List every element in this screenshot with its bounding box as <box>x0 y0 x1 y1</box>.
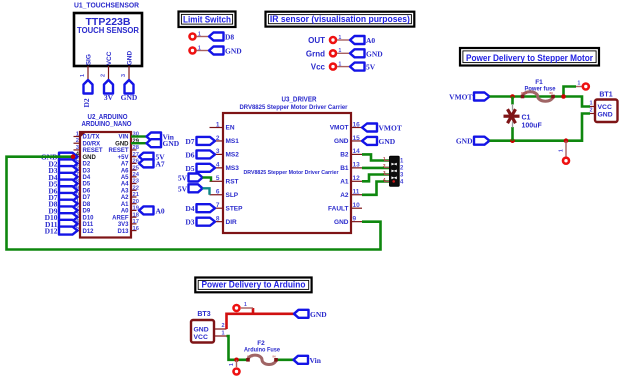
svg-text:15: 15 <box>353 135 361 142</box>
svg-text:MS2: MS2 <box>226 152 240 159</box>
svg-text:DRV8825 Stepper Motor Driver C: DRV8825 Stepper Motor Driver Carrier <box>244 170 339 176</box>
IR sensor pad OUT <box>330 37 336 43</box>
driver U3 body <box>223 113 351 233</box>
svg-text:MS1: MS1 <box>226 138 240 145</box>
svg-text:GND: GND <box>598 112 613 119</box>
svg-text:Grnd: Grnd <box>306 49 325 58</box>
svg-text:D13: D13 <box>117 229 129 235</box>
wire branch to test pad P1 <box>564 87 577 97</box>
svg-text:2: 2 <box>221 323 224 329</box>
battery BT1 reference label <box>599 92 612 99</box>
motor connector J1 pin numbers red <box>383 156 386 182</box>
fuse F1 labels <box>525 79 556 92</box>
net flag GND at arduino left pin 4 <box>41 153 78 162</box>
svg-text:1: 1 <box>244 302 247 308</box>
IR sensor pad Grnd <box>330 50 336 56</box>
svg-text:VCC: VCC <box>598 104 612 111</box>
svg-text:1: 1 <box>229 363 235 366</box>
limit switch pad 1 pin number 1 <box>198 31 201 37</box>
svg-text:2: 2 <box>76 138 79 144</box>
svg-text:VCC: VCC <box>194 334 208 341</box>
Power Delivery to Stepper Motor title box <box>460 48 599 66</box>
Power Delivery to Arduino title box <box>195 278 311 293</box>
net flag D5 at arduino left pin 8 <box>48 180 77 189</box>
svg-text:D7: D7 <box>83 195 91 201</box>
svg-text:C1: C1 <box>522 115 531 122</box>
svg-text:23: 23 <box>133 179 140 185</box>
svg-text:17: 17 <box>133 219 139 225</box>
svg-text:IR sensor (visualisation purpo: IR sensor (visualisation purposes) <box>270 14 410 24</box>
wire touch sensor GND pin stub <box>128 66 130 80</box>
svg-text:A4: A4 <box>121 182 129 188</box>
svg-text:2: 2 <box>101 74 107 77</box>
wire pad P3 branch red <box>252 308 255 314</box>
svg-text:VCC: VCC <box>106 51 113 65</box>
svg-text:GND: GND <box>115 141 129 147</box>
battery BT1 body <box>595 100 618 123</box>
svg-text:5V: 5V <box>178 184 188 193</box>
IR sensor title box <box>266 12 415 27</box>
svg-text:D4: D4 <box>185 204 194 213</box>
battery BT1 pin numbers <box>589 101 592 114</box>
net flag A0 at arduino <box>139 206 165 215</box>
IR sensor pad Vcc pin number 1 <box>339 61 342 67</box>
svg-text:VIN: VIN <box>118 135 128 141</box>
net flag GND at driver pin 15 <box>362 137 396 146</box>
net flag D4 at driver STEP <box>185 204 215 213</box>
svg-text:100uF: 100uF <box>522 123 543 130</box>
svg-text:SIG: SIG <box>86 54 93 65</box>
svg-text:25: 25 <box>133 165 140 171</box>
wire driver B2 to motor connector pin 1 <box>362 154 390 160</box>
net flag GND at touch sensor <box>121 80 138 102</box>
wire arduino VIN to flag <box>131 135 147 137</box>
svg-text:D12: D12 <box>83 229 95 235</box>
svg-text:28: 28 <box>133 145 140 151</box>
svg-text:Power Delivery to Stepper Moto: Power Delivery to Stepper Motor <box>466 53 593 64</box>
capacitor C1 value labels <box>522 115 543 130</box>
net flag 5V at IR sensor <box>350 63 376 72</box>
svg-text:18: 18 <box>133 212 140 218</box>
svg-text:IN: IN <box>550 91 553 95</box>
limit switch pad 2 <box>190 48 196 54</box>
wire limit switch row 1 <box>197 36 210 38</box>
net flag Vin at arduino VIN <box>147 133 175 142</box>
net flag D9 at arduino left pin 12 <box>48 206 77 215</box>
capacitor C1 wires <box>511 97 514 141</box>
svg-text:22: 22 <box>133 185 139 191</box>
IR sensor signal name Grnd <box>306 49 325 58</box>
fuse F1 terminal text OUT IN <box>521 91 553 95</box>
pad P3 <box>234 305 240 311</box>
net flag D6 at driver MS2 <box>185 150 215 159</box>
fuse F2 terminal text OUT IN <box>247 355 276 359</box>
net flag GND at limit switch <box>209 47 242 56</box>
arduino U2 reference labels <box>82 114 132 128</box>
svg-text:13: 13 <box>353 162 361 169</box>
svg-text:MS3: MS3 <box>226 165 240 172</box>
svg-text:1: 1 <box>221 331 224 337</box>
svg-text:1: 1 <box>578 81 581 87</box>
junction VCC wire at pad P4 <box>234 358 239 363</box>
svg-text:D2: D2 <box>83 162 91 168</box>
svg-text:BT1: BT1 <box>599 92 612 99</box>
motor connector J1 body <box>390 156 400 186</box>
junction VMOT rail at pad branch <box>561 94 566 99</box>
net flag A7 at arduino <box>139 159 165 168</box>
svg-text:21: 21 <box>133 192 140 198</box>
svg-text:D9: D9 <box>83 209 91 215</box>
pad P1 <box>583 84 589 90</box>
svg-text:5V: 5V <box>178 174 188 183</box>
svg-text:20: 20 <box>133 199 139 205</box>
svg-text:4: 4 <box>216 162 220 169</box>
pad P2 pin number rotated <box>559 149 565 152</box>
svg-text:2: 2 <box>589 108 592 114</box>
battery BT3 reference label <box>197 311 210 318</box>
net flag D7 at arduino left pin 10 <box>48 193 77 202</box>
wire arduino GND to flag <box>131 142 147 144</box>
svg-text:A7: A7 <box>121 162 129 168</box>
svg-text:1: 1 <box>80 74 86 77</box>
svg-text:GND: GND <box>334 138 349 145</box>
svg-text:14: 14 <box>353 148 361 155</box>
net flag A0 at IR sensor <box>350 36 375 45</box>
net flag D4 at arduino left pin 7 <box>48 173 77 182</box>
driver U3 pin names <box>226 125 349 226</box>
svg-text:Limit Switch: Limit Switch <box>183 14 231 24</box>
svg-text:GND: GND <box>83 155 97 161</box>
svg-text:RESET: RESET <box>108 148 128 154</box>
svg-text:3V3: 3V3 <box>118 222 129 228</box>
svg-text:VMOT: VMOT <box>330 125 349 132</box>
svg-text:A1: A1 <box>340 179 349 186</box>
net flag D5 at driver MS3 <box>185 164 215 173</box>
fuse F2 <box>246 355 278 364</box>
wire pad P3 stub <box>241 307 253 309</box>
wire touch sensor VCC pin stub <box>108 66 110 80</box>
svg-text:11: 11 <box>353 189 360 196</box>
svg-text:STEP: STEP <box>226 205 244 212</box>
svg-text:U3_DRIVER: U3_DRIVER <box>282 97 317 104</box>
svg-text:FAULT: FAULT <box>328 205 348 212</box>
svg-text:A2: A2 <box>121 195 129 201</box>
svg-text:D3: D3 <box>185 218 194 227</box>
net flag D8 at arduino left pin 11 <box>48 200 77 209</box>
svg-text:D4: D4 <box>83 175 91 181</box>
svg-text:12: 12 <box>353 175 361 182</box>
IR sensor pad Vcc <box>330 64 336 70</box>
pad P1 pin number <box>578 81 581 87</box>
net flag D8 at limit switch <box>209 33 234 42</box>
limit switch pad 2 pin number 1 <box>198 45 201 51</box>
svg-text:BT3: BT3 <box>197 311 210 318</box>
fuse F2 labels <box>244 340 280 354</box>
wire pad P1 stub <box>576 86 582 88</box>
net flag GND at arduino right GND <box>147 139 180 148</box>
svg-text:D8: D8 <box>83 202 91 208</box>
svg-text:D5: D5 <box>83 182 91 188</box>
wire 5V flag to SLP pin teal <box>203 188 210 195</box>
arduino U2 body <box>80 132 131 238</box>
svg-text:D11: D11 <box>83 222 94 228</box>
wire driver B1 to motor connector pin 2 <box>362 167 390 170</box>
svg-text:2: 2 <box>216 135 220 142</box>
net flag 5V to driver RST <box>178 174 203 183</box>
net flag GND at IR sensor <box>350 49 383 58</box>
pad P4 <box>234 369 240 375</box>
svg-text:A6: A6 <box>121 168 129 174</box>
arduino U2 pin stubs <box>74 137 137 231</box>
svg-text:TOUCH SENSOR: TOUCH SENSOR <box>77 26 139 35</box>
limit switch pad 1 <box>190 34 196 40</box>
IR sensor pad Grnd pin number 1 <box>339 48 342 54</box>
svg-text:B1: B1 <box>340 165 349 172</box>
svg-text:SLP: SLP <box>226 192 239 199</box>
svg-text:U1_TOUCHSENSOR: U1_TOUCHSENSOR <box>74 1 140 10</box>
pad P4 pin number rotated <box>229 363 235 366</box>
svg-text:D10: D10 <box>83 215 95 221</box>
touch sensor U1 body <box>74 13 142 66</box>
svg-text:EN: EN <box>226 125 235 132</box>
svg-text:Power Delivery to Arduino: Power Delivery to Arduino <box>201 280 305 290</box>
net flag 5V at arduino +5V <box>139 153 165 162</box>
svg-text:D8: D8 <box>225 33 234 42</box>
svg-text:GND: GND <box>366 49 383 58</box>
net flag D2 at arduino left pin 5 <box>48 159 77 168</box>
wire limit switch row 2 <box>197 50 210 52</box>
svg-text:24: 24 <box>133 172 140 178</box>
svg-text:D0/RX: D0/RX <box>83 141 101 147</box>
touch sensor U1 reference label <box>74 1 140 10</box>
svg-text:9: 9 <box>353 215 357 222</box>
svg-text:Vcc: Vcc <box>311 63 326 72</box>
svg-text:B2: B2 <box>340 152 349 159</box>
pad P2 <box>563 158 569 164</box>
net flag D3 at driver DIR <box>185 218 215 227</box>
svg-text:16: 16 <box>353 121 361 128</box>
svg-text:16: 16 <box>133 226 140 232</box>
battery BT1 pin stubs <box>583 107 596 114</box>
battery BT3 pin stubs <box>214 329 227 336</box>
net flag 5V to driver SLP <box>178 184 203 193</box>
motor connector J1 pin stubs <box>384 161 390 182</box>
net flag D11 at arduino left pin 14 <box>45 220 78 229</box>
svg-text:A0: A0 <box>121 209 129 215</box>
wire VMOT rail to BT1 VCC <box>490 97 591 107</box>
svg-text:D6: D6 <box>185 150 194 159</box>
Limit Switch title box <box>179 12 236 28</box>
svg-text:1: 1 <box>216 121 220 128</box>
svg-text:VMOT: VMOT <box>449 93 472 102</box>
svg-text:AREF: AREF <box>112 215 129 221</box>
driver U3 reference labels <box>240 97 349 112</box>
svg-text:A3: A3 <box>121 188 129 194</box>
svg-text:A1: A1 <box>121 202 129 208</box>
svg-text:GND: GND <box>456 137 473 146</box>
svg-text:DIR: DIR <box>226 219 238 226</box>
IR sensor pad OUT pin number 1 <box>339 35 342 41</box>
svg-text:6: 6 <box>216 189 220 196</box>
svg-text:ARDUINO_NANO: ARDUINO_NANO <box>82 121 132 128</box>
svg-text:DRV8825 Stepper Motor Driver C: DRV8825 Stepper Motor Driver Carrier <box>240 105 349 111</box>
wire fuse F2 to Vin flag green <box>276 358 294 361</box>
net flag GND at power delivery arduino <box>294 310 327 319</box>
svg-text:8: 8 <box>216 215 220 222</box>
arduino U2 pin-1 marker <box>80 132 87 138</box>
wire IR sensor row OUT <box>337 39 350 41</box>
pad P3 pin number <box>244 302 247 308</box>
wire GND rail to BT1 GND <box>490 114 591 141</box>
net flag 3V at touch sensor <box>104 80 114 102</box>
touch sensor U1 pin names SIG VCC GND <box>86 51 134 66</box>
junction GND rail at pad branch <box>564 138 569 143</box>
svg-text:D5: D5 <box>185 164 194 173</box>
wire IR sensor row Vcc <box>337 66 350 68</box>
junction at arduino GND flag <box>71 154 76 159</box>
wire pad P4 stub <box>236 360 238 367</box>
svg-text:GND: GND <box>127 51 134 66</box>
svg-text:Vin: Vin <box>310 356 322 365</box>
net flag D10 at arduino left pin 13 <box>45 213 78 222</box>
battery BT3 body <box>191 320 214 343</box>
motor connector J1 pin numbers blue <box>400 159 404 186</box>
wire BT3 VCC to fuse F2 green <box>227 336 249 360</box>
svg-text:A7: A7 <box>156 159 165 168</box>
net flag VMOT source <box>449 93 489 102</box>
IR sensor signal name Vcc <box>311 63 326 72</box>
net flag D12 at arduino left pin 15 <box>45 227 78 236</box>
svg-text:VMOT: VMOT <box>379 124 402 133</box>
net flag Vin at power delivery arduino <box>294 356 322 365</box>
svg-text:OUT: OUT <box>308 36 325 45</box>
svg-text:GND: GND <box>163 139 180 148</box>
svg-text:RST: RST <box>226 179 239 186</box>
wire driver A1 to motor connector pin 3 <box>362 175 390 182</box>
arduino U2 pin names <box>83 135 130 235</box>
wire pad P2 stub <box>565 141 567 157</box>
svg-text:3: 3 <box>121 74 127 77</box>
svg-text:A5: A5 <box>121 175 129 181</box>
svg-text:D2: D2 <box>82 98 91 107</box>
svg-text:Arduino Fuse: Arduino Fuse <box>244 346 280 353</box>
svg-text:3V: 3V <box>104 93 114 102</box>
wire driver A2 to motor connector pin 4 <box>362 182 390 195</box>
wire IR sensor row Grnd <box>337 52 350 54</box>
arduino U2 pin numbers <box>73 132 140 232</box>
driver U3 pin numbers <box>216 121 360 222</box>
wire BT3 GND to GND flag red <box>227 314 295 329</box>
svg-text:GND: GND <box>194 327 209 334</box>
svg-text:GND: GND <box>121 93 138 102</box>
svg-text:OUT: OUT <box>521 91 528 95</box>
svg-text:D1/TX: D1/TX <box>83 135 100 141</box>
touch sensor U1 pin numbers 1 2 3 <box>80 74 127 77</box>
svg-text:A0: A0 <box>156 206 165 215</box>
net flag D2 at touch sensor <box>82 80 93 108</box>
junction GND rail at C1 <box>510 138 515 143</box>
net flag GND source <box>456 137 490 146</box>
net flag D3 at arduino left pin 6 <box>48 166 77 175</box>
svg-text:GND: GND <box>379 137 396 146</box>
junction VMOT rail at C1 <box>510 94 515 99</box>
fuse F1 <box>521 92 555 101</box>
svg-text:5V: 5V <box>366 63 376 72</box>
svg-text:1: 1 <box>589 101 592 107</box>
svg-text:GND: GND <box>334 219 349 226</box>
wire 5V flag to RST pin <box>203 178 212 182</box>
svg-text:A0: A0 <box>366 36 375 45</box>
driver U3 pin stubs <box>210 128 363 222</box>
svg-text:7: 7 <box>216 202 220 209</box>
capacitor C1 polarized symbol <box>504 109 520 123</box>
net flag VMOT at driver pin 16 <box>362 124 402 133</box>
wire GND bus from arduino GND around bottom to driver GND pin 9 <box>7 157 381 250</box>
svg-text:GND: GND <box>225 47 242 56</box>
svg-text:A2: A2 <box>340 192 349 199</box>
svg-text:D3: D3 <box>83 168 91 174</box>
svg-text:D6: D6 <box>83 188 91 194</box>
IR sensor signal name OUT <box>308 36 325 45</box>
svg-text:5: 5 <box>216 175 220 182</box>
wire touch sensor SIG pin stub <box>87 66 89 80</box>
net flag D7 at driver MS1 <box>185 137 215 146</box>
battery BT3 pin numbers <box>221 323 224 337</box>
svg-text:10: 10 <box>353 202 361 209</box>
net flag D6 at arduino left pin 9 <box>48 186 77 195</box>
svg-text:GND: GND <box>310 310 327 319</box>
driver U3 inner value label <box>244 170 339 176</box>
svg-text:3: 3 <box>216 148 220 155</box>
svg-text:1: 1 <box>559 149 565 152</box>
svg-text:RESET: RESET <box>83 148 103 154</box>
svg-text:D7: D7 <box>185 137 194 146</box>
svg-text:+5V: +5V <box>118 155 129 161</box>
svg-text:D12: D12 <box>45 227 58 236</box>
